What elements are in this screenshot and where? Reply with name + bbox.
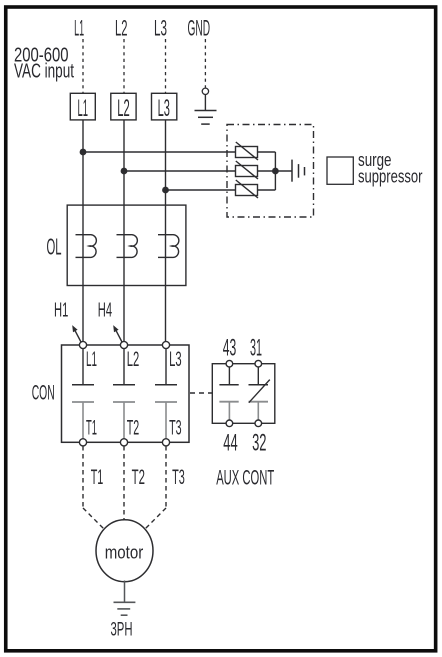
terminal circle L1 top of CON <box>79 341 86 348</box>
aux NO contact 43-44 <box>219 367 238 420</box>
svg-text:L1: L1 <box>86 348 97 371</box>
svg-text:OL: OL <box>47 234 62 260</box>
svg-text:L3: L3 <box>169 348 182 371</box>
svg-text:L2: L2 <box>117 95 130 122</box>
wire L2 vertical <box>123 120 125 342</box>
terminal box L3 <box>152 93 177 122</box>
arrow H1 <box>72 325 81 342</box>
chassis ground symbol <box>292 160 305 182</box>
ground symbol motor 3PH <box>114 581 136 616</box>
wire L3 vertical <box>165 120 167 342</box>
wire dashed T2 to motor <box>123 446 125 520</box>
junction node on L1 <box>80 149 87 156</box>
terminal circle L2 top of CON <box>120 341 127 348</box>
wire MOV bus <box>258 152 276 190</box>
contactor CON box <box>62 345 190 442</box>
svg-text:32: 32 <box>252 430 266 457</box>
contactor pole L3 <box>155 349 177 439</box>
wire to chassis ground <box>275 170 292 172</box>
svg-text:31: 31 <box>250 335 262 362</box>
contactor pole L2 <box>113 349 135 439</box>
overload heater L1 <box>76 235 97 258</box>
svg-text:L2: L2 <box>127 348 140 371</box>
svg-text:motor: motor <box>105 542 144 563</box>
svg-text:CON: CON <box>32 382 55 405</box>
svg-text:T3: T3 <box>172 466 185 489</box>
svg-text:H1: H1 <box>54 300 68 322</box>
overload heater L3 <box>158 235 179 258</box>
wire L3 to surge suppressor <box>166 189 236 191</box>
svg-text:3PH: 3PH <box>111 619 133 641</box>
junction node on L2 <box>121 168 128 175</box>
terminal circle 32 <box>255 420 262 427</box>
motor M1 <box>96 520 153 582</box>
svg-text:L2: L2 <box>115 16 128 41</box>
svg-text:GND: GND <box>188 16 211 41</box>
junction node MOV bus <box>272 168 279 175</box>
svg-text:L1: L1 <box>74 16 84 41</box>
svg-text:44: 44 <box>223 430 237 457</box>
label 200-600 VAC input <box>14 44 74 83</box>
varistor MOV3 <box>236 180 259 198</box>
ground symbol GND input <box>195 88 217 124</box>
wire dashed T1 to motor <box>83 446 104 529</box>
svg-text:T1: T1 <box>86 416 97 439</box>
varistor MOV1 <box>236 142 259 160</box>
svg-text:L3: L3 <box>154 16 167 41</box>
terminal box L2 <box>111 93 136 122</box>
svg-text:L1: L1 <box>78 95 89 122</box>
terminal circle T2 bottom of CON <box>120 439 127 446</box>
wire dashed lead L3 <box>165 39 167 93</box>
wire L2 to surge suppressor <box>124 170 236 172</box>
wire dashed lead L2 <box>123 39 125 93</box>
terminal circle 31 <box>255 360 262 367</box>
terminal circle T1 bottom of CON <box>79 439 86 446</box>
wire L1 to surge suppressor <box>83 151 236 153</box>
terminal circle T3 bottom of CON <box>162 439 169 446</box>
wire dashed T3 to motor <box>146 446 166 528</box>
svg-text:T2: T2 <box>132 466 145 489</box>
svg-text:VAC input: VAC input <box>14 60 74 83</box>
contactor pole L1 <box>72 349 94 439</box>
wire dashed lead GND <box>204 39 206 88</box>
terminal circle 43 <box>226 360 233 367</box>
terminal box L1 <box>70 93 95 122</box>
surge suppressor enclosure (dash-dot box) <box>227 125 314 218</box>
wire mechanical link CON to AUX (dashed) <box>190 392 212 394</box>
svg-text:T1: T1 <box>91 466 104 489</box>
overload relay OL box <box>67 205 186 285</box>
svg-text:H4: H4 <box>98 300 112 322</box>
wire L1 vertical <box>82 120 84 342</box>
svg-text:43: 43 <box>223 335 237 362</box>
aux contact box <box>212 364 274 424</box>
svg-text:AUX CONT: AUX CONT <box>216 467 274 490</box>
varistor MOV2 <box>236 161 259 179</box>
arrow H4 <box>113 325 122 342</box>
junction node on L3 <box>162 187 169 194</box>
terminal circle 44 <box>226 420 233 427</box>
svg-text:T2: T2 <box>127 416 140 439</box>
overload heater L2 <box>117 235 138 258</box>
terminal circle L3 top of CON <box>162 341 169 348</box>
wire dashed lead L1 <box>82 39 84 93</box>
aux NC contact 31-32 <box>249 367 270 420</box>
legend surge suppressor <box>327 149 423 186</box>
svg-text:suppressor: suppressor <box>358 165 423 186</box>
svg-text:L3: L3 <box>158 95 170 122</box>
svg-text:T3: T3 <box>169 416 182 439</box>
